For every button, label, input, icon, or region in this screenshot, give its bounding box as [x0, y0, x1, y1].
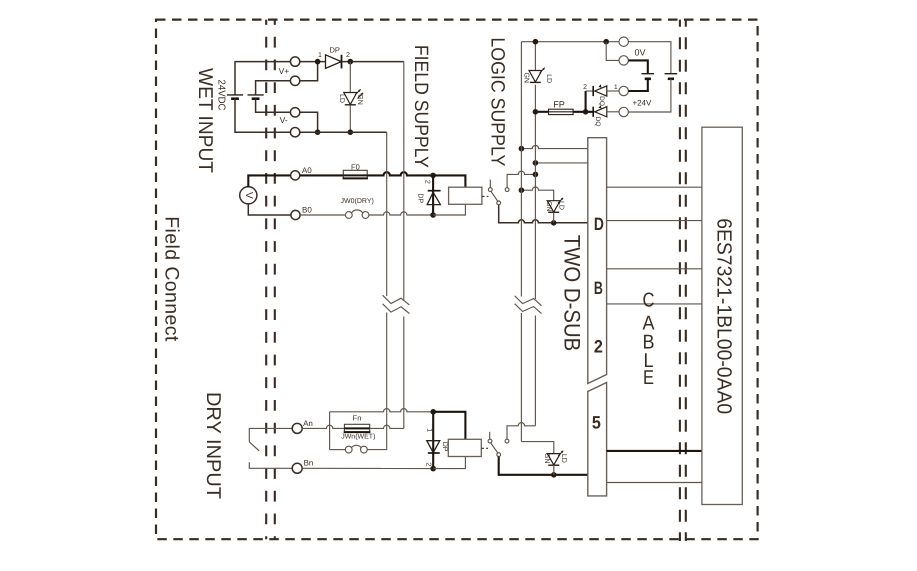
svg-text:LD: LD [560, 454, 567, 463]
svg-text:V: V [243, 192, 254, 199]
cable wire row 3 [607, 268, 702, 270]
svg-text:2: 2 [346, 52, 350, 59]
battery cell B2 short plate [252, 97, 260, 100]
wire Sn right contact to logic rail D elbow (hops rail C) [507, 423, 535, 440]
node V+ bus junction [315, 59, 321, 65]
svg-text:V+: V+ [279, 66, 290, 76]
cable boundary double dashed line (right pair) [679, 20, 681, 541]
field supply plus rail upper part [403, 62, 405, 300]
cable wire row 4 [607, 303, 702, 305]
svg-text:DRY INPUT: DRY INPUT [202, 392, 224, 499]
field supply minus rail (V-) upper part [386, 132, 388, 296]
wire LEDn tap from rail C elbow [521, 442, 553, 454]
wire LED0 tap from rail C (hops rail D) [521, 187, 553, 201]
terminal A0 [291, 171, 300, 180]
cable wire row 2 [607, 220, 702, 222]
svg-text:D: D [594, 214, 604, 234]
jumper JW0(DRY) [345, 210, 369, 219]
svg-text:2: 2 [423, 180, 430, 184]
battery cell LB2 short plate [668, 78, 674, 81]
svg-text:TWO D-SUB: TWO D-SUB [559, 235, 584, 352]
svg-text:1: 1 [614, 84, 618, 91]
node DP cathode junction [348, 59, 354, 65]
wire Fn to field plus rail elbow (hops V- rail) [370, 425, 404, 428]
svg-text:C: C [643, 290, 655, 312]
svg-text:LD: LD [545, 74, 552, 83]
cable wire row 1 [607, 186, 702, 188]
svg-text:2: 2 [594, 336, 603, 356]
wire DP cathode to field+ elbow [342, 61, 404, 63]
terminal V+ (1) [290, 57, 299, 66]
wire A0 to fuse F0 [300, 174, 344, 176]
svg-text:WET INPUT: WET INPUT [194, 68, 216, 173]
svg-text:Field Connect: Field Connect [160, 216, 182, 342]
fuse FP [549, 109, 574, 114]
opto OCn body box [448, 439, 481, 456]
node LEDn bottom junction [551, 472, 557, 478]
node rail C at LED0 wire [519, 187, 525, 193]
node rail D at row2 [533, 160, 539, 166]
battery cell LB1 short plate [645, 78, 651, 81]
D-SUB connector upper shell [588, 138, 607, 384]
LED PD wire upper [349, 62, 351, 93]
svg-text:V-: V- [280, 115, 288, 125]
wire A0 junction to opto box top [433, 175, 465, 187]
LED LD0 (wet status green) [547, 197, 563, 212]
opto OCn diode DP (cathode down) [427, 441, 440, 453]
svg-text:An: An [303, 419, 313, 428]
diode DQ lower [593, 105, 619, 117]
battery cell B1 short plate [231, 97, 239, 100]
fuse FP wire from rail D [535, 111, 548, 113]
switch Sn (opto output) [488, 432, 509, 457]
LED PD wire lower [349, 105, 351, 132]
node V- bus junction at LED [348, 129, 354, 135]
terminal B0 [291, 210, 300, 219]
wire V- terminal 3 riser to V- bus [300, 112, 318, 132]
svg-text:6ES7321-1BL00-0AA0: 6ES7321-1BL00-0AA0 [713, 218, 736, 414]
field supply minus rail (V-) lower part [386, 313, 388, 449]
svg-text:1: 1 [318, 52, 322, 59]
svg-text:DP: DP [417, 193, 424, 203]
svg-text:FP: FP [553, 100, 565, 110]
dry input switch (external contact) [249, 428, 292, 468]
wire 24VDC battery outer loop bottom (to V- terminal 4) [235, 99, 290, 133]
logic rail C upper part [520, 42, 522, 297]
svg-text:DQ: DQ [598, 96, 605, 106]
node A0 opto junction [430, 173, 436, 179]
svg-text:2: 2 [425, 462, 432, 466]
diode DQ upper [586, 84, 619, 96]
wire battery LB1 to +24V(3) [628, 79, 647, 91]
terminal V- (4) [290, 128, 299, 137]
LED LDn (dry status green) [547, 450, 563, 465]
svg-text:0V: 0V [634, 48, 645, 58]
wire break symbol on logic rails [515, 296, 542, 314]
node V- bus junction at riser [315, 129, 321, 135]
wire 24VDC battery inner loop bottom (to V- terminal 3) [256, 99, 291, 113]
terminal 0V (1) [619, 37, 628, 46]
wire V+ bus to diode DP anode [300, 61, 326, 63]
wire 24VDC battery outer loop top (to V+ terminal 1) [235, 62, 290, 95]
wire DQ branch riser [585, 91, 587, 112]
svg-text:B0: B0 [302, 206, 312, 215]
wire 0V(1) to battery cell LB2 [628, 42, 671, 74]
svg-text:GN: GN [545, 201, 552, 212]
wire Bn junction to opto box bottom [433, 457, 465, 469]
svg-text:FIELD SUPPLY: FIELD SUPPLY [410, 45, 431, 168]
opto OC0 input diode DP vertical wire [432, 175, 434, 215]
node rail C at row1 [519, 146, 525, 152]
wire D-SUB feed row2 from rail D [535, 162, 587, 164]
opto OC0 diode DP (cathode up) [427, 191, 440, 205]
wire An junction to opto box top [433, 412, 465, 440]
wire S0 right contact to logic rail D [507, 171, 535, 188]
node 0V terminal 2 branch [603, 39, 609, 45]
node DQ branch [583, 109, 589, 115]
svg-text:2: 2 [583, 84, 587, 91]
wire V+ terminal 2 riser to V+ bus [300, 62, 318, 81]
outer dashed border [156, 20, 758, 540]
cable wire row 5 [607, 450, 702, 452]
voltage source V (wet input) [240, 187, 257, 204]
opto OCn input diode vertical wire [432, 412, 434, 469]
terminal An [292, 423, 302, 433]
svg-text:LD: LD [557, 201, 564, 210]
svg-text:DP: DP [441, 442, 448, 452]
logic rail D lower part [534, 316, 536, 426]
svg-text:24VDC: 24VDC [215, 80, 226, 111]
svg-text:JW0(DRY): JW0(DRY) [341, 197, 374, 205]
label CABLE [643, 290, 656, 389]
svg-text:GN: GN [523, 72, 530, 83]
logic rail D upper part [534, 42, 536, 71]
battery cell LB2 long plate [665, 73, 678, 75]
wire FP to DQ diodes [573, 111, 594, 113]
switch S0 (opto output) [488, 180, 509, 205]
terminal +24V (3) [619, 86, 628, 95]
node An opto junction [430, 409, 436, 415]
LED LDP (logic supply green) on rail D [529, 67, 545, 82]
svg-text:DQ: DQ [594, 117, 601, 127]
jumper JWn(WET) [330, 445, 368, 453]
svg-text:1: 1 [425, 428, 432, 432]
wire 0V(2) to battery cell LB1 [628, 60, 647, 73]
wire B0 junction to opto box bottom [433, 204, 465, 215]
wire An to fuse Fn (hops loop left edge) [302, 425, 344, 428]
wire 24VDC battery inner loop top (to V+ terminal 2) [256, 81, 291, 95]
svg-text:F0: F0 [351, 162, 360, 171]
wire loop left edge (top edge to jumper) [329, 412, 331, 450]
field connect boundary double dashed line (left pair) [265, 20, 267, 540]
D-SUB connector lower shell [588, 383, 607, 496]
wire break symbol on field rails [383, 295, 410, 313]
LED PD (field supply green) [344, 89, 364, 105]
diode DP (field supply) [326, 55, 342, 69]
wire V source to B0 terminal [248, 204, 291, 215]
node LED0 bottom junction [551, 220, 557, 226]
battery cell B1 long plate [227, 94, 243, 96]
svg-text:E: E [643, 367, 654, 389]
wire jumper to V- rail elbow [367, 448, 386, 451]
svg-text:5: 5 [592, 412, 601, 432]
svg-text:LOGIC SUPPLY: LOGIC SUPPLY [487, 37, 508, 166]
node rail D at top bus [533, 39, 539, 45]
fuse Fn [344, 424, 371, 432]
node rail D at S0 wire [533, 172, 539, 178]
dashed actuation link OCn [481, 447, 488, 449]
dashed actuation link OC0 [482, 195, 489, 197]
field supply plus rail lower part [403, 317, 405, 429]
wire Bn terminal to opto junction [302, 467, 430, 469]
svg-text:Bn: Bn [304, 459, 314, 468]
module box 6ES7321 [702, 127, 742, 504]
wire B0 to jumper JW0 [300, 214, 345, 216]
logic rail C lower part [520, 313, 522, 442]
svg-text:GN: GN [543, 453, 550, 464]
wire loop top edge to opto diode (hops field rails) [330, 409, 434, 412]
wire D-SUB feed row1 from rail C (hops rail D) [521, 145, 587, 148]
wire LED0 to output junction [553, 212, 555, 223]
node B0 opto junction [430, 212, 436, 218]
terminal 0V (2) [619, 56, 628, 65]
svg-text:JWn(WET): JWn(WET) [341, 433, 375, 441]
wire V source to A0 terminal [248, 175, 290, 186]
node rail D at FP wire [533, 109, 539, 115]
cable wire row 6 [607, 482, 702, 484]
opto OC0 body box [449, 187, 482, 204]
svg-text:LD: LD [338, 94, 345, 103]
terminal V+ (2) [290, 76, 299, 85]
terminal V- (3) [290, 108, 299, 117]
logic supply top bus wire [521, 41, 619, 43]
svg-text:GN: GN [356, 94, 363, 105]
logic rail D middle part [534, 85, 536, 299]
battery cell B2 long plate [248, 94, 264, 96]
node Bn opto junction [430, 466, 436, 472]
svg-text:+24V: +24V [632, 98, 652, 107]
wire V- bus to field- rail elbow [300, 131, 387, 133]
svg-text:B: B [594, 278, 603, 298]
svg-text:A0: A0 [302, 166, 312, 175]
wire F0 to opto diode anode (hops over field rails) [367, 172, 433, 175]
wire battery LB2 to +24V(4) [628, 79, 671, 112]
svg-text:DP: DP [329, 46, 339, 55]
battery cell LB1 long plate [642, 73, 655, 75]
wire LEDn to output junction [553, 465, 555, 475]
wire S0 output to D-SUB (hops logic rails) [499, 205, 588, 223]
wire rail D lower elbow [534, 425, 536, 427]
wire Sn output to D-SUB (hops logic rails) [499, 457, 588, 475]
fuse F0 [343, 170, 368, 178]
wire JW0 to opto diode cathode (hops over field rails) [369, 212, 433, 215]
terminal +24V (4) [619, 107, 628, 116]
wire to 0V terminal 2 [606, 42, 619, 61]
terminal Bn [292, 463, 302, 473]
svg-text:Fn: Fn [353, 413, 362, 422]
